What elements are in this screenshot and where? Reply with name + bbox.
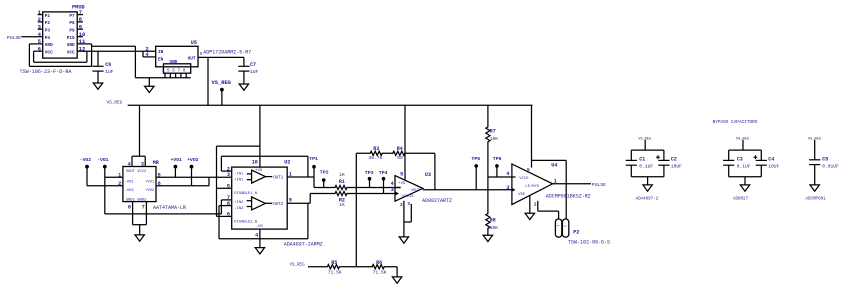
- svg-text:8: 8: [128, 204, 131, 210]
- svg-text:R1: R1: [339, 179, 345, 185]
- svg-text:-IN1: -IN1: [234, 173, 244, 177]
- svg-text:1K: 1K: [339, 202, 345, 208]
- svg-text:R5: R5: [331, 260, 337, 266]
- svg-text:VS_REG: VS_REG: [107, 101, 123, 106]
- svg-text:-VO1: -VO1: [125, 180, 135, 184]
- svg-text:9: 9: [289, 198, 292, 204]
- svg-text:MR: MR: [153, 160, 159, 166]
- svg-text:AAT4TAMA-LR: AAT4TAMA-LR: [153, 205, 186, 211]
- svg-text:5: 5: [200, 51, 203, 57]
- svg-text:35.7K: 35.7K: [369, 155, 383, 161]
- svg-text:TSW-102-08-G-S: TSW-102-08-G-S: [568, 240, 610, 246]
- svg-text:P7: P7: [69, 14, 75, 19]
- svg-text:1UF: 1UF: [105, 69, 114, 75]
- svg-text:EN: EN: [158, 58, 164, 63]
- svg-text:10UF: 10UF: [768, 164, 779, 170]
- svg-text:TP1: TP1: [309, 156, 318, 162]
- svg-text:P2: P2: [573, 229, 579, 235]
- svg-text:R3: R3: [373, 146, 379, 152]
- svg-text:3: 3: [407, 202, 410, 207]
- svg-text:1: 1: [555, 225, 559, 227]
- svg-text:5: 5: [527, 167, 530, 173]
- svg-text:DISABLE2_N: DISABLE2_N: [234, 221, 257, 225]
- svg-text:-VO2: -VO2: [125, 189, 135, 193]
- svg-text:C3: C3: [737, 156, 743, 162]
- svg-text:0.01UF: 0.01UF: [822, 164, 839, 170]
- svg-text:1: 1: [554, 178, 557, 184]
- svg-text:C4: C4: [768, 156, 774, 162]
- svg-text:GND: GND: [67, 43, 75, 48]
- svg-text:0.1UF: 0.1UF: [639, 164, 653, 170]
- svg-text:TP5: TP5: [471, 156, 480, 162]
- svg-text:R7: R7: [490, 128, 496, 134]
- svg-text:+VO2: +VO2: [187, 157, 198, 163]
- svg-text:+VS: +VS: [398, 182, 406, 186]
- svg-text:P2: P2: [45, 21, 51, 26]
- svg-text:PULSE: PULSE: [7, 35, 21, 41]
- svg-text:GND: GND: [45, 43, 53, 48]
- svg-text:ADA4897-2: ADA4897-2: [636, 198, 659, 202]
- svg-text:PULSE: PULSE: [592, 182, 606, 188]
- svg-text:-VO2: -VO2: [80, 157, 91, 163]
- svg-text:10K: 10K: [490, 225, 499, 231]
- svg-text:P4: P4: [45, 36, 51, 41]
- svg-text:C1: C1: [639, 156, 645, 162]
- svg-text:0.1UF: 0.1UF: [737, 164, 751, 170]
- svg-text:ADCMP601: ADCMP601: [806, 198, 827, 202]
- svg-text:P8: P8: [69, 21, 75, 26]
- svg-text:4: 4: [391, 181, 394, 187]
- svg-text:ADP1720ARMZ-5-R7: ADP1720ARMZ-5-R7: [203, 49, 251, 55]
- svg-text:2: 2: [400, 203, 403, 208]
- svg-text:10K: 10K: [490, 136, 499, 142]
- svg-text:3: 3: [506, 185, 509, 191]
- svg-text:VS_REG: VS_REG: [212, 80, 231, 86]
- svg-text:DISABLE1_N: DISABLE1_N: [234, 192, 257, 196]
- svg-text:-VS: -VS: [256, 225, 264, 229]
- svg-text:VS_REG: VS_REG: [290, 263, 306, 267]
- svg-text:LE/HYS: LE/HYS: [525, 184, 539, 189]
- svg-text:U2: U2: [284, 159, 290, 165]
- svg-text:U4: U4: [551, 163, 557, 169]
- svg-text:C6: C6: [105, 62, 111, 68]
- svg-text:P1: P1: [45, 14, 51, 19]
- svg-text:VOUT: VOUT: [411, 189, 419, 193]
- svg-text:1UF: 1UF: [250, 69, 259, 75]
- svg-text:AD8027ARTZ: AD8027ARTZ: [422, 198, 452, 204]
- svg-text:U5: U5: [191, 40, 197, 46]
- svg-text:TP4: TP4: [379, 170, 388, 176]
- svg-text:7: 7: [79, 9, 82, 16]
- svg-text:7: 7: [142, 204, 145, 210]
- svg-text:4: 4: [255, 233, 258, 239]
- svg-text:C5: C5: [822, 156, 828, 162]
- svg-text:VOUT VCC2: VOUT VCC2: [126, 170, 147, 174]
- svg-text:+IN1: +IN1: [234, 178, 244, 182]
- svg-text:P3: P3: [45, 28, 51, 33]
- svg-text:3: 3: [227, 172, 230, 178]
- svg-text:ADA4897-2ARMZ: ADA4897-2ARMZ: [284, 241, 323, 247]
- svg-text:+VO1: +VO1: [145, 180, 155, 184]
- svg-text:10: 10: [79, 31, 86, 38]
- svg-text:DIS: DIS: [407, 195, 413, 199]
- svg-text:P9: P9: [69, 28, 75, 33]
- svg-text:2: 2: [534, 201, 537, 207]
- svg-text:U3: U3: [425, 172, 431, 178]
- svg-text:+VO2: +VO2: [145, 189, 155, 193]
- svg-text:TP2: TP2: [320, 169, 329, 175]
- svg-text:R8: R8: [490, 218, 496, 224]
- svg-text:P10: P10: [67, 36, 75, 41]
- svg-text:50: 50: [397, 155, 403, 161]
- svg-text:C7: C7: [250, 62, 256, 68]
- svg-text:3: 3: [391, 187, 394, 193]
- svg-text:GND: GND: [170, 60, 178, 65]
- svg-text:OUT2: OUT2: [273, 203, 284, 207]
- svg-text:1K: 1K: [339, 172, 345, 178]
- svg-text:VEE: VEE: [518, 193, 526, 197]
- svg-text:C2: C2: [671, 156, 677, 162]
- svg-text:GND1 GND2: GND1 GND2: [126, 199, 147, 203]
- svg-text:IN: IN: [158, 50, 164, 55]
- svg-text:+IN2: +IN2: [234, 201, 244, 205]
- svg-text:71.5K: 71.5K: [373, 270, 387, 276]
- svg-text:AD8027: AD8027: [733, 198, 749, 202]
- svg-text:TSW-106-23-F-D-RA: TSW-106-23-F-D-RA: [20, 69, 73, 75]
- svg-text:ADCMP601BKSZ-R2: ADCMP601BKSZ-R2: [546, 193, 591, 199]
- svg-text:5: 5: [400, 171, 403, 177]
- svg-text:10: 10: [252, 160, 258, 166]
- svg-text:-VO1: -VO1: [97, 157, 108, 163]
- svg-text:10UF: 10UF: [671, 164, 682, 170]
- svg-text:R6: R6: [376, 260, 382, 266]
- svg-text:VCCO: VCCO: [519, 177, 529, 181]
- svg-text:R4: R4: [397, 146, 403, 152]
- svg-text:VCC: VCC: [45, 50, 53, 55]
- svg-text:+VO1: +VO1: [171, 157, 182, 163]
- svg-text:OUT: OUT: [188, 56, 196, 61]
- svg-text:OUT1: OUT1: [273, 177, 284, 181]
- svg-text:71.5K: 71.5K: [328, 270, 342, 276]
- svg-text:TP3: TP3: [365, 170, 374, 176]
- svg-text:4: 4: [506, 171, 509, 177]
- svg-text:-VS: -VS: [400, 195, 406, 199]
- svg-text:VCC: VCC: [67, 50, 75, 55]
- svg-text:BYPASS CAPACITORS: BYPASS CAPACITORS: [713, 120, 758, 125]
- svg-text:TP6: TP6: [493, 156, 502, 162]
- svg-text:2: 2: [562, 225, 566, 227]
- svg-text:-IN2: -IN2: [234, 207, 244, 211]
